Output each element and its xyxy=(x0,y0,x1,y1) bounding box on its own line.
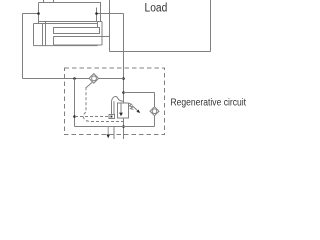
cylinder upper piston xyxy=(96,8,98,22)
tank arrow xyxy=(106,134,110,138)
cylinder top stubs xyxy=(44,0,54,3)
wire cap-end port line xyxy=(23,14,39,79)
node junction pilot tee xyxy=(73,115,76,118)
valve spring xyxy=(129,103,134,109)
wire horizontal port line in box xyxy=(23,78,124,80)
valve V1 body xyxy=(118,103,129,118)
wire main vertical line upper xyxy=(123,14,125,104)
node cap-end port junction xyxy=(37,12,40,15)
node junction main/port xyxy=(122,77,125,80)
cylinder lower piston xyxy=(43,24,46,46)
wire bypass top line xyxy=(124,92,155,94)
wire left branch vertical xyxy=(74,79,76,127)
node rod-end port junction xyxy=(95,12,98,15)
svg-text:Regenerative circuit: Regenerative circuit xyxy=(171,98,247,109)
wire bypass right vertical xyxy=(154,93,156,127)
wire pilot line dashed bottom horizontal xyxy=(91,121,124,123)
check valve CV1 left pilot-operated xyxy=(86,74,99,88)
piston rod lower xyxy=(54,37,110,46)
valve adjust arrow xyxy=(132,106,140,113)
node junction main/bypass top xyxy=(122,91,125,94)
cylinder inter-stage stubs xyxy=(39,22,98,24)
load box xyxy=(110,0,211,52)
wire pilot line dashed vertical with hop xyxy=(83,87,91,121)
check valve CV2 right xyxy=(150,107,159,116)
wire main vertical line lower xyxy=(123,118,125,139)
cylinder upper barrel xyxy=(39,3,103,22)
regenerative circuit dashed box xyxy=(65,68,165,135)
wire pump line down xyxy=(113,127,115,140)
node junction main/return xyxy=(122,125,125,128)
wire rod-end port line xyxy=(97,13,124,15)
svg-text:Load: Load xyxy=(145,2,168,14)
rod end plate xyxy=(101,22,103,46)
valve pilot port box xyxy=(109,115,115,119)
wire tank drain branch xyxy=(107,127,109,135)
valve drain arc xyxy=(112,96,124,101)
valve flow arrow xyxy=(119,113,123,117)
piston rod upper xyxy=(54,28,100,34)
node junction left branch xyxy=(73,77,76,80)
valve flow line xyxy=(120,103,122,113)
cylinder lower barrel xyxy=(34,24,98,46)
wire bottom return line xyxy=(75,126,155,128)
wire pilot line dashed horizontal xyxy=(75,116,109,118)
valve drain chimney xyxy=(112,101,115,114)
